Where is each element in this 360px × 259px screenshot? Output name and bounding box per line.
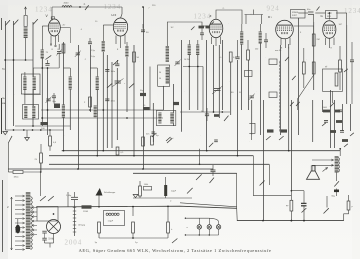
wire col f3 xyxy=(263,100,265,221)
wire bus h110 xyxy=(41,109,163,111)
resistor R13 xyxy=(167,207,178,243)
cap C18 60u xyxy=(332,190,340,198)
svg-text:STASS-: STASS- xyxy=(292,11,299,14)
cap C4c xyxy=(113,79,127,87)
jack J1 xyxy=(249,123,255,140)
tube D pins xyxy=(281,38,290,50)
lamp LA3 xyxy=(216,222,220,235)
transformer tap right 4 xyxy=(32,220,37,222)
svg-text:10⁶: 10⁶ xyxy=(171,27,174,29)
wire bus h1733 xyxy=(133,172,237,174)
resistor Rbus 120 xyxy=(82,205,92,213)
wire det top xyxy=(245,10,264,25)
transformer tap left 7 xyxy=(15,222,25,224)
parts row2 xyxy=(322,120,342,126)
wire col h2 xyxy=(334,100,336,148)
IF2 coil Lb xyxy=(170,113,174,124)
wire left drop xyxy=(8,143,13,172)
svg-text:H ≡: H ≡ xyxy=(112,13,117,17)
tube H xyxy=(113,18,127,36)
label V xyxy=(46,14,49,18)
svg-text:1234: 1234 xyxy=(35,6,53,14)
label Umspg xyxy=(78,225,86,227)
trim C8b xyxy=(249,94,255,100)
cap C2b xyxy=(24,93,56,104)
T4 secondary xyxy=(338,158,339,173)
svg-text:Schallwager: Schallwager xyxy=(104,191,116,194)
tube V top cap xyxy=(51,7,53,21)
label TA xyxy=(2,68,5,71)
lamp LA1 xyxy=(197,218,201,235)
label tick 5 xyxy=(228,23,229,25)
wire col a1 xyxy=(5,21,7,130)
label approx xyxy=(170,200,172,203)
resistor R14 xyxy=(286,190,293,222)
transformer tap right 5 xyxy=(32,225,37,227)
transformer tap left 1 xyxy=(15,195,25,197)
trim C6 xyxy=(175,60,181,66)
IF2 box xyxy=(156,111,176,126)
tuning cap C2 xyxy=(45,60,49,65)
tube Z top wire xyxy=(216,8,242,24)
label tick 20 xyxy=(299,141,300,143)
fb box xyxy=(323,66,348,108)
wire col e7 xyxy=(248,60,250,110)
wire col f1 xyxy=(251,100,253,135)
label tick 4 xyxy=(174,23,175,25)
parts row1 xyxy=(322,107,342,112)
wire antenna down xyxy=(25,38,27,61)
box mid xyxy=(245,71,253,77)
box BX2 xyxy=(326,11,338,19)
wire right bend1 xyxy=(252,156,254,196)
svg-text:N ↗: N ↗ xyxy=(170,137,174,140)
hum arrow xyxy=(323,168,328,172)
coil L10 xyxy=(173,102,179,105)
label tick 13 xyxy=(229,81,230,83)
wire col e4 xyxy=(230,62,232,115)
coil L3b xyxy=(24,106,28,118)
ground G2 xyxy=(25,130,30,141)
wire bus h1557 xyxy=(49,155,253,157)
svg-text:↗: ↗ xyxy=(148,7,150,10)
resistor R5 xyxy=(298,34,320,110)
tube Z grid xyxy=(200,26,209,40)
wire col g1 xyxy=(280,45,282,135)
svg-text:20kΩ: 20kΩ xyxy=(322,107,327,109)
res mid2 xyxy=(214,114,219,117)
switch S3 xyxy=(84,3,89,10)
label tick 1 xyxy=(80,29,83,31)
wire col b7 xyxy=(96,90,98,156)
resistor R5b xyxy=(143,105,150,110)
label tick 21 xyxy=(219,57,222,59)
wire col d3 xyxy=(173,84,175,126)
fuse F1 xyxy=(24,16,27,27)
switch S1b xyxy=(14,20,19,25)
switch S7b xyxy=(48,196,54,201)
label tick 2 xyxy=(95,21,98,23)
svg-text:1,0μ: 1,0μ xyxy=(91,56,95,58)
wire col b4 xyxy=(69,90,71,131)
switch S5a xyxy=(8,136,12,143)
transformer tap right 3 xyxy=(32,216,37,218)
cap C50mid xyxy=(201,108,218,147)
wire bus h118 xyxy=(41,117,163,119)
tube Z xyxy=(209,19,223,37)
coil L14 xyxy=(258,24,262,44)
coil L8 xyxy=(152,5,202,62)
transformer TR1 core xyxy=(26,192,31,249)
label tick 25 xyxy=(308,89,309,91)
wire pickup xyxy=(98,196,100,208)
coil L2 xyxy=(40,43,44,68)
label tick 3 xyxy=(148,7,150,10)
cap C7 xyxy=(231,40,241,94)
watermark 1234 xyxy=(104,3,122,11)
wire bus h130 xyxy=(5,129,64,131)
cap C5 xyxy=(141,24,149,34)
trimmer C4a xyxy=(62,44,81,57)
wire col d5 xyxy=(188,55,190,110)
resistor R15 xyxy=(344,195,353,221)
switch S1c xyxy=(33,19,38,24)
transformer tap left 8 xyxy=(15,227,25,229)
switch S2 xyxy=(46,55,52,59)
switch S10 xyxy=(196,174,202,180)
label tick 9 xyxy=(84,59,87,61)
wire v68 xyxy=(67,192,69,207)
svg-text:250: 250 xyxy=(255,49,258,51)
svg-text:FURT: FURT xyxy=(292,15,298,17)
cap C14b xyxy=(42,238,47,240)
wire h204b xyxy=(180,203,237,207)
resistor R9 25 xyxy=(35,144,43,172)
resistor R4h xyxy=(133,52,146,96)
audio row R17 xyxy=(164,177,167,198)
speaker leads xyxy=(312,159,334,166)
speaker coil xyxy=(311,166,315,171)
svg-text:100n: 100n xyxy=(111,101,115,103)
coil L13 xyxy=(240,24,244,45)
transformer tap left 2 xyxy=(15,200,25,202)
wire col c1 xyxy=(102,52,104,151)
cap C10 xyxy=(350,42,354,104)
transformer tap left 10 xyxy=(15,236,25,238)
wire col h1 xyxy=(330,90,332,148)
label tick 23 xyxy=(265,57,266,59)
wire bus h112 xyxy=(180,111,230,113)
label E xyxy=(2,97,6,105)
svg-text:MA: MA xyxy=(2,102,6,105)
cap C9 60n xyxy=(307,7,320,15)
wire h198a xyxy=(133,197,192,199)
wire col h3 xyxy=(342,104,344,131)
wire h238 xyxy=(99,237,168,239)
tube G xyxy=(323,21,336,39)
resistor R12 xyxy=(132,207,139,244)
wire col d1 xyxy=(152,103,154,142)
transformer tap left 11 xyxy=(15,240,25,242)
wire col b1 xyxy=(41,59,43,127)
wire col f2 xyxy=(260,44,262,136)
wire v407 xyxy=(40,163,42,196)
wire col e2 xyxy=(218,45,220,118)
svg-text:↗: ↗ xyxy=(250,13,252,16)
edge line xyxy=(2,18,3,252)
resistor R8b xyxy=(116,147,124,155)
svg-text:924: 924 xyxy=(267,5,280,13)
svg-text:2004: 2004 xyxy=(65,239,83,247)
svg-text:mw 4Ω: mw 4Ω xyxy=(275,50,282,52)
label tick 19 xyxy=(249,141,250,143)
coil L11 xyxy=(187,40,191,55)
wire col a3 xyxy=(32,22,34,126)
resistor R3 xyxy=(229,52,237,62)
antenna coil L1 xyxy=(23,28,28,39)
transformer tap right 6 xyxy=(32,229,37,231)
wire v199 xyxy=(199,149,201,165)
wire col e5 xyxy=(237,60,239,156)
cap C17 xyxy=(210,165,216,183)
svg-text:2M: 2M xyxy=(317,39,320,41)
switch S9 xyxy=(324,196,329,214)
label tick 14 xyxy=(256,91,257,93)
cap C8 xyxy=(264,33,268,48)
coil L3 xyxy=(23,68,36,108)
transformer tap left 4 xyxy=(15,209,25,211)
wire col c4 xyxy=(116,68,118,140)
cap C14a xyxy=(42,231,47,238)
node A xyxy=(4,59,33,61)
coil L5 xyxy=(95,68,99,90)
wire col e1 xyxy=(213,45,215,112)
svg-text:TA: TA xyxy=(2,68,5,71)
wire bus h1507 xyxy=(62,150,341,152)
svg-text:100n: 100n xyxy=(111,71,115,73)
svg-text:μ: μ xyxy=(352,206,353,208)
coil box T1b xyxy=(23,105,39,120)
transformer tap right 1 xyxy=(32,207,37,209)
wire bus h207 xyxy=(36,206,237,209)
label tick 15 xyxy=(299,61,300,63)
label D xyxy=(268,15,272,19)
watermark 1234 xyxy=(194,13,212,21)
osc coil L7 xyxy=(125,42,129,57)
node B xyxy=(33,67,59,69)
label tick 16 xyxy=(27,135,28,137)
wire col e3 xyxy=(222,40,224,110)
cap C16 xyxy=(301,203,307,221)
wire col g3 xyxy=(290,100,292,191)
svg-text:1234: 1234 xyxy=(194,13,212,21)
svg-text:20·: 20· xyxy=(63,25,66,27)
label 5Afu xyxy=(49,238,55,241)
resistor R11 xyxy=(95,222,101,244)
ground G1 xyxy=(3,132,8,135)
cap C11 15u xyxy=(66,192,78,205)
wire right bend2 xyxy=(268,164,270,185)
label L2 xyxy=(46,52,49,54)
comp cluster m1 xyxy=(152,132,171,141)
wire bus h1643 xyxy=(49,163,269,165)
cap C5t xyxy=(88,38,92,44)
resistor R3b xyxy=(49,130,57,151)
watermark 1234 xyxy=(35,6,53,14)
wire col h4 xyxy=(346,25,348,104)
resistor R10 180 xyxy=(13,170,42,178)
wire bus h190 xyxy=(183,49,258,113)
wire col g6 xyxy=(313,22,315,90)
wire col h5 xyxy=(350,104,352,131)
resistor R1g xyxy=(84,97,91,107)
svg-text:80μ: 80μ xyxy=(53,101,56,103)
svg-text:·2·: ·2· xyxy=(222,8,225,10)
svg-text:D♀: D♀ xyxy=(268,15,272,19)
svg-text:50: 50 xyxy=(159,72,161,74)
wire col d4 xyxy=(181,40,183,132)
switch S7a xyxy=(40,196,46,201)
wire col e6 xyxy=(241,45,243,111)
caption xyxy=(79,248,272,254)
switch S9b xyxy=(260,181,265,186)
wire col b5 xyxy=(78,45,80,169)
wire col b6 xyxy=(90,45,92,112)
wire D anode xyxy=(294,26,314,34)
wire col g2 xyxy=(288,44,290,151)
audio row gnd xyxy=(133,195,138,198)
wire col b2 xyxy=(47,68,49,135)
wire motor down xyxy=(45,234,54,248)
svg-text:Umspg: Umspg xyxy=(78,225,86,227)
wire col d6 xyxy=(197,55,199,110)
wire v150 xyxy=(149,67,151,111)
coil L4 xyxy=(60,25,72,90)
label tick 22 xyxy=(163,85,164,87)
resistor R2 4000 xyxy=(62,3,72,7)
watermark 1234 xyxy=(344,7,360,15)
audio row box 100k xyxy=(143,184,151,190)
box R2c xyxy=(53,101,61,108)
switch S4 xyxy=(113,60,118,65)
parts row3 xyxy=(330,130,354,147)
tube H pins xyxy=(116,35,125,52)
label tick 11 xyxy=(139,61,140,63)
input terminals xyxy=(269,50,300,106)
IF2 coil La xyxy=(158,113,162,124)
wire col d2 xyxy=(163,86,165,110)
tube D xyxy=(276,20,294,39)
svg-text:120Ω: 120Ω xyxy=(83,211,88,213)
transformer tap left 5 xyxy=(15,213,25,215)
tube V pins xyxy=(50,35,59,51)
transformer tap right 2 xyxy=(32,211,37,213)
label tick 18 xyxy=(200,135,201,137)
coil L9 xyxy=(159,67,169,84)
tube Z pins xyxy=(212,37,221,47)
svg-text:50n: 50n xyxy=(146,134,149,136)
transformer tap left 3 xyxy=(15,204,25,206)
watermark 2004 xyxy=(65,239,83,247)
wire col g4 xyxy=(298,18,300,135)
tube H top cap xyxy=(121,7,123,18)
wire col c7 xyxy=(143,7,145,169)
svg-text:10 250: 10 250 xyxy=(184,59,190,61)
tuning cap C4 xyxy=(115,60,119,66)
wire bus h169 xyxy=(8,168,213,170)
marks Z xyxy=(191,21,214,30)
dark cap C8d xyxy=(279,129,287,140)
svg-text:4·: 4· xyxy=(84,3,86,6)
switch S6b xyxy=(212,86,228,121)
resistor R6 xyxy=(339,46,342,90)
wire h1957 xyxy=(253,195,291,197)
svg-text:4000: 4000 xyxy=(64,3,70,5)
dark cap C8c xyxy=(266,129,274,140)
label tick 24 xyxy=(96,115,97,117)
coil L12 xyxy=(196,40,200,55)
svg-text:1,5μ: 1,5μ xyxy=(91,50,95,52)
pickup P1 xyxy=(96,188,116,196)
label Z xyxy=(210,14,212,18)
wire H grid xyxy=(103,25,113,41)
parts cluster mid xyxy=(142,134,174,147)
lamp LA2 xyxy=(207,218,211,235)
svg-text:50μ: 50μ xyxy=(140,90,143,92)
svg-text:N²: N² xyxy=(325,66,327,69)
wire col b3 xyxy=(63,42,65,151)
svg-text:μμ: μμ xyxy=(286,205,288,207)
label H xyxy=(112,13,117,17)
wire h1907 xyxy=(291,191,304,203)
dimension line 2 xyxy=(7,197,13,250)
label tick 12 xyxy=(184,91,185,93)
wire col g7 xyxy=(322,100,324,112)
svg-text:50: 50 xyxy=(159,78,161,80)
dotted shield xyxy=(279,60,281,132)
label G xyxy=(321,14,324,18)
wire bus h221 xyxy=(237,220,344,222)
IF can T2 xyxy=(158,65,170,86)
audio row SW xyxy=(187,188,193,194)
svg-text:1,0μF: 1,0μF xyxy=(171,191,177,193)
resistor R4 xyxy=(247,40,250,60)
transformer tap left 9 xyxy=(15,231,25,233)
label tick 7 xyxy=(300,32,302,34)
wire v2367 drop xyxy=(236,173,239,221)
wire box links xyxy=(298,13,325,22)
svg-text:1,5μF: 1,5μF xyxy=(108,221,114,223)
audio row R16 xyxy=(139,181,142,198)
wire col c6 xyxy=(133,45,135,156)
rectifier disc M1 xyxy=(47,220,61,234)
svg-text:100k: 100k xyxy=(144,184,148,186)
tube G pins xyxy=(326,38,335,50)
coil L3c xyxy=(32,106,36,118)
wire col c2 xyxy=(106,55,108,148)
motor box xyxy=(37,207,58,222)
transformer tap right 7 xyxy=(32,234,37,236)
box BX1 xyxy=(291,10,306,19)
wire col c3 xyxy=(111,62,113,148)
svg-text:Z: Z xyxy=(210,14,212,18)
electrolytic C13 xyxy=(15,219,20,233)
coil L4b xyxy=(62,105,66,118)
cap C3 xyxy=(91,50,115,103)
wire G top xyxy=(329,12,347,26)
lamp rail xyxy=(185,218,219,236)
svg-text:180w: 180w xyxy=(14,177,19,179)
